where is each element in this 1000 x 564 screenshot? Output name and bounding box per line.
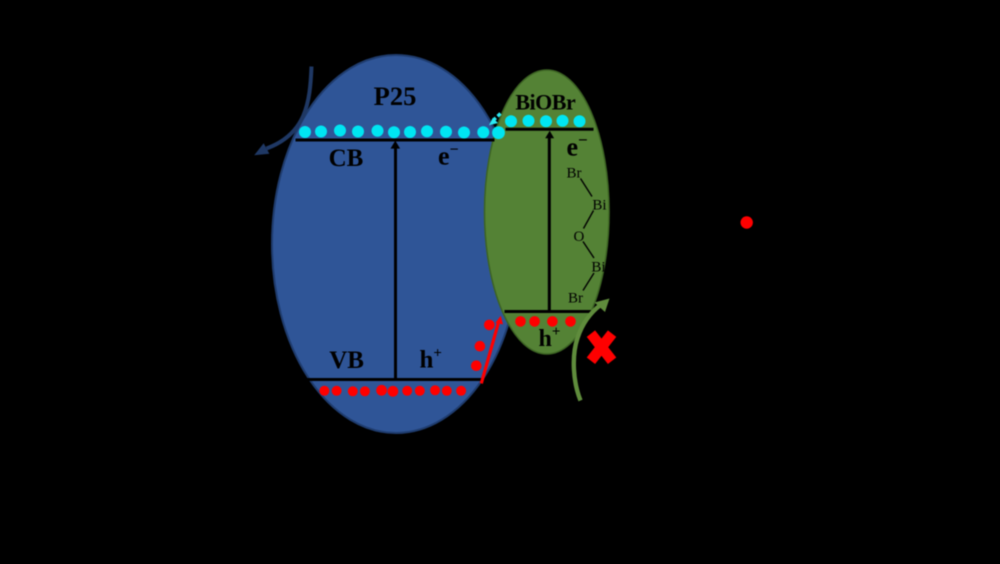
molecule bond Bi-Br <box>583 273 594 291</box>
electron dots on P25 CB <box>299 125 505 140</box>
BiOBr band-gap arrow <box>545 131 554 311</box>
blocked symbol (red X) <box>587 330 617 364</box>
svg-text:Br: Br <box>567 166 582 182</box>
BiOBr VB line <box>505 310 592 313</box>
BiOBr CB line <box>506 128 594 131</box>
molecule bond O-Bi <box>583 242 594 259</box>
P25 band-gap arrow <box>391 141 401 379</box>
svg-text:O: O <box>573 229 584 245</box>
svg-text:VB: VB <box>329 347 364 374</box>
svg-text:CB: CB <box>329 145 364 172</box>
hole dots on P25 VB <box>319 385 466 397</box>
molecule bond Bi-O <box>584 211 594 229</box>
hole dots on BiOBr VB <box>515 316 576 327</box>
P25 ellipse <box>272 55 520 433</box>
blocked hole arrow (green, curved) <box>574 299 610 401</box>
svg-text:P25: P25 <box>374 81 417 111</box>
P25 CB line <box>296 139 495 142</box>
hole transfer arrow (red) <box>481 316 503 384</box>
svg-text:BiOBr: BiOBr <box>515 90 576 115</box>
BiOBr ellipse <box>485 70 610 354</box>
P25 VB line <box>307 378 485 381</box>
electron dots on BiOBr CB <box>505 115 586 128</box>
electron injection mini-arrow (cyan, dashed) <box>489 114 501 126</box>
svg-text:Bi: Bi <box>592 198 606 214</box>
svg-text:Br: Br <box>568 291 583 307</box>
stray hole dot (right) <box>741 216 753 228</box>
hole dots along transfer arrow <box>471 320 495 371</box>
electron exit arrow (dark navy, top-left) <box>254 67 311 156</box>
molecule bond Br-Bi <box>581 179 593 197</box>
